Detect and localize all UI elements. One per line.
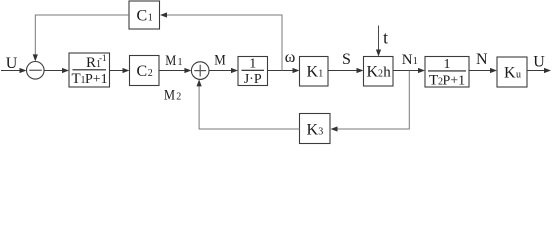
svg-text:U: U: [533, 54, 545, 71]
block C1: [129, 1, 160, 29]
wire block C2 to summer 2: [159, 68, 191, 73]
block C2: [130, 56, 160, 86]
wire block R to block C2: [110, 68, 130, 73]
svg-text:P+1: P+1: [443, 74, 466, 89]
svg-text:C: C: [137, 8, 148, 25]
svg-text:2: 2: [148, 68, 153, 79]
svg-text:1: 1: [413, 56, 418, 67]
svg-text:S: S: [342, 51, 351, 68]
summing junction 1: [27, 62, 45, 80]
svg-text:ω: ω: [285, 49, 296, 66]
wire U input to summer 1: [1, 68, 27, 73]
svg-text:1: 1: [444, 57, 451, 72]
svg-text:1: 1: [178, 57, 183, 68]
svg-text:T: T: [429, 73, 438, 89]
wire block 1/JP to block K1: [268, 68, 300, 73]
wire t input into block K2h: [376, 26, 381, 57]
svg-text:U: U: [6, 55, 18, 72]
svg-text:N: N: [476, 51, 488, 68]
block K1: [300, 57, 329, 87]
svg-text:2: 2: [378, 69, 383, 80]
svg-text:u: u: [516, 70, 521, 81]
svg-text:M: M: [214, 53, 226, 69]
svg-text:1: 1: [318, 69, 323, 80]
wire N1 branch down to block K3: [331, 71, 410, 132]
svg-text:P+1: P+1: [85, 72, 108, 87]
wire summer 1 to block R: [44, 68, 69, 73]
block Ku: [497, 57, 527, 87]
svg-text:R: R: [86, 55, 96, 71]
svg-text:K: K: [504, 65, 516, 82]
wire block C1 to summer 1: [33, 15, 129, 61]
svg-text:M: M: [164, 88, 175, 104]
svg-text:N: N: [402, 52, 413, 68]
svg-text:K: K: [367, 64, 379, 81]
wire block Ku to output: [527, 68, 551, 73]
block K3: [300, 114, 331, 144]
block K2h: [364, 57, 394, 87]
wire block 1/(T2P+1) to block Ku: [469, 68, 497, 73]
svg-text:J·P: J·P: [244, 72, 262, 87]
svg-text:M: M: [165, 53, 176, 69]
svg-text:3: 3: [318, 126, 323, 137]
svg-text:1: 1: [249, 57, 256, 72]
svg-text:-1: -1: [99, 53, 107, 63]
wire block K2h to block 1/(T2P+1): [393, 68, 425, 73]
wire summer 2 to block 1/JP: [209, 68, 238, 73]
svg-text:C: C: [137, 63, 148, 80]
svg-text:1: 1: [148, 13, 153, 24]
wire block K3 to summer 2: [197, 79, 300, 129]
wire omega branch up to block C1: [160, 12, 282, 70]
summing junction 2: [191, 62, 209, 80]
svg-text:K: K: [307, 64, 319, 81]
svg-text:2: 2: [176, 92, 181, 103]
svg-text:h: h: [383, 65, 391, 81]
block 1/(J·P): [238, 57, 268, 88]
wire block K1 to block K2h: [328, 68, 364, 73]
block R1^-1/(T1P+1): [69, 53, 110, 87]
svg-text:t: t: [383, 28, 388, 48]
svg-text:T: T: [72, 71, 81, 87]
block 1/(T2P+1): [425, 57, 469, 89]
svg-text:K: K: [307, 121, 319, 138]
